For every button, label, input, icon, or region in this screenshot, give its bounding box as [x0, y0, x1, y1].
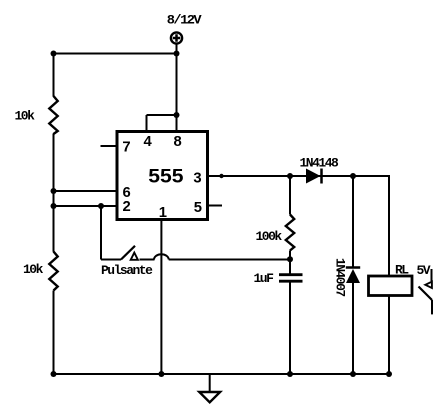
svg-text:5V: 5V [417, 263, 431, 278]
capacitor C1 1uF [254, 271, 303, 286]
wire pin4 drop [146, 115, 148, 132]
diode D2 1N4007 [333, 258, 361, 297]
wire power stem [176, 44, 178, 115]
svg-text:8/12V: 8/12V [167, 13, 202, 28]
svg-text:4: 4 [144, 134, 153, 150]
wire pin1 drop [160, 220, 162, 375]
wire left rail lower [53, 291, 55, 375]
ground symbol [199, 374, 220, 402]
pin 7 label [122, 140, 130, 156]
node junction pin6 left [51, 188, 57, 194]
pin 1 label [159, 205, 167, 221]
node junction pin3 stub [219, 174, 223, 178]
diode D1 1N4148 [300, 156, 340, 184]
wire pin8 drop [176, 115, 178, 132]
svg-text:3: 3 [193, 171, 201, 187]
wire 1N4007 branch upper [352, 176, 354, 267]
svg-text:2: 2 [123, 199, 131, 215]
svg-text:1: 1 [159, 205, 167, 221]
svg-text:5: 5 [194, 200, 202, 216]
wire relay bottom drop [388, 296, 390, 375]
wire pin7 stub [101, 145, 118, 147]
node junction pin1 bottom [158, 371, 164, 377]
pin 6 label [123, 185, 131, 201]
wire top rail [54, 53, 177, 55]
resistor R2 10k lower [23, 252, 58, 291]
svg-text:100k: 100k [256, 229, 283, 244]
node junction 1N4007 bottom [350, 371, 356, 377]
svg-text:10k: 10k [15, 109, 36, 124]
svg-text:8: 8 [174, 134, 182, 150]
wire 100k top [289, 176, 291, 215]
pin 3 label [193, 171, 201, 187]
pin 4 label [144, 134, 153, 150]
pin 8 label [174, 134, 182, 150]
wire 100k to cap [289, 251, 291, 274]
wire left rail middle [53, 134, 55, 252]
svg-text:1uF: 1uF [254, 271, 275, 286]
node junction 100k top [287, 173, 293, 179]
svg-text:555: 555 [148, 167, 184, 188]
node junction pin2 left [51, 203, 57, 209]
wire pin6 [54, 190, 118, 192]
svg-text:Pulsante: Pulsante [101, 263, 153, 278]
node junction pulsante top [98, 203, 104, 209]
op IC U1 555 box [117, 132, 208, 220]
relay RL coil [369, 262, 413, 295]
svg-text:10k: 10k [23, 262, 44, 277]
wire cap bottom [289, 282, 291, 374]
node junction cap top [287, 256, 293, 262]
svg-text:1N4148: 1N4148 [300, 156, 340, 171]
wire bottom rail [54, 373, 390, 375]
wire pin3 output [208, 175, 390, 177]
node junction bottom-left [51, 371, 57, 377]
wire pulsante drop [100, 206, 102, 260]
resistor R1 10k upper [15, 96, 58, 134]
node junction 1N4007 top [350, 173, 356, 179]
svg-text:7: 7 [122, 140, 130, 156]
node junction cap bottom [287, 371, 293, 377]
wire pin5 stub [208, 205, 223, 207]
svg-text:RL: RL [395, 262, 409, 277]
node junction jog [174, 112, 180, 118]
resistor R3 100k [256, 215, 295, 251]
wire jog to pin4 [147, 114, 177, 116]
node junction relay bottom [386, 371, 392, 377]
wire left rail upper [53, 54, 55, 97]
node junction power [174, 51, 180, 57]
svg-text:1N4007: 1N4007 [333, 258, 348, 297]
wire right rail down to relay [388, 175, 390, 276]
power supply symbol 8/12V [167, 13, 202, 44]
wire pin2 [54, 205, 118, 207]
wire hop over pin1 [154, 254, 169, 259]
switch S2 relay contact 5V [417, 263, 433, 315]
wire 1N4007 branch lower [352, 283, 354, 374]
pin 2 label [123, 199, 131, 215]
wire switch to cap junction [169, 259, 290, 261]
pin 5 label [194, 200, 202, 216]
node junction top-left [51, 51, 57, 57]
switch S1 Pulsante [101, 246, 155, 278]
